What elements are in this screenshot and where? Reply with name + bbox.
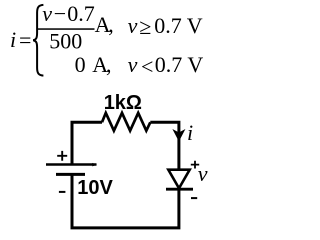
svg-text:A,: A, — [95, 12, 114, 37]
current arrow on right wire — [174, 130, 184, 140]
svg-text:v: v — [42, 1, 52, 26]
battery plus sign — [57, 151, 67, 161]
svg-text:≥: ≥ — [139, 14, 151, 39]
wire: left wire lower + bottom wire + right wire lower — [72, 174, 179, 228]
battery top plate end cap — [92, 163, 97, 167]
svg-text:−: − — [54, 1, 66, 26]
battery minus sign — [59, 191, 66, 193]
svg-text:0: 0 — [75, 52, 86, 77]
svg-text:i: i — [187, 120, 193, 145]
svg-text:500: 500 — [49, 28, 82, 53]
svg-text:i: i — [10, 27, 16, 52]
svg-text:0.7 V: 0.7 V — [154, 13, 203, 38]
svg-text:=: = — [19, 28, 31, 53]
fraction bar — [37, 28, 95, 30]
svg-text:v: v — [128, 13, 138, 38]
wire: top-left corner (left wire upper + top wire left segment) — [72, 122, 102, 163]
svg-text:1kΩ: 1kΩ — [104, 92, 142, 114]
diode D1 triangle — [168, 170, 189, 189]
svg-text:0.7: 0.7 — [67, 1, 95, 26]
svg-text:v: v — [128, 52, 138, 77]
diode minus sign — [191, 197, 197, 199]
svg-text:A,: A, — [92, 52, 111, 77]
resistor R 1kohm zigzag — [102, 113, 150, 131]
battery V1 bottom plate (-) — [56, 173, 85, 176]
svg-text:0.7 V: 0.7 V — [155, 52, 204, 77]
battery V1 top plate (+) — [46, 163, 97, 165]
svg-text:<: < — [141, 54, 153, 79]
diode plus sign — [191, 161, 199, 169]
svg-text:10V: 10V — [77, 177, 113, 199]
svg-text:v: v — [198, 161, 208, 186]
piecewise brace — [33, 5, 43, 76]
diode D1 cathode bar — [166, 188, 193, 191]
wire: top wire right segment + right wire down to diode — [150, 122, 179, 170]
